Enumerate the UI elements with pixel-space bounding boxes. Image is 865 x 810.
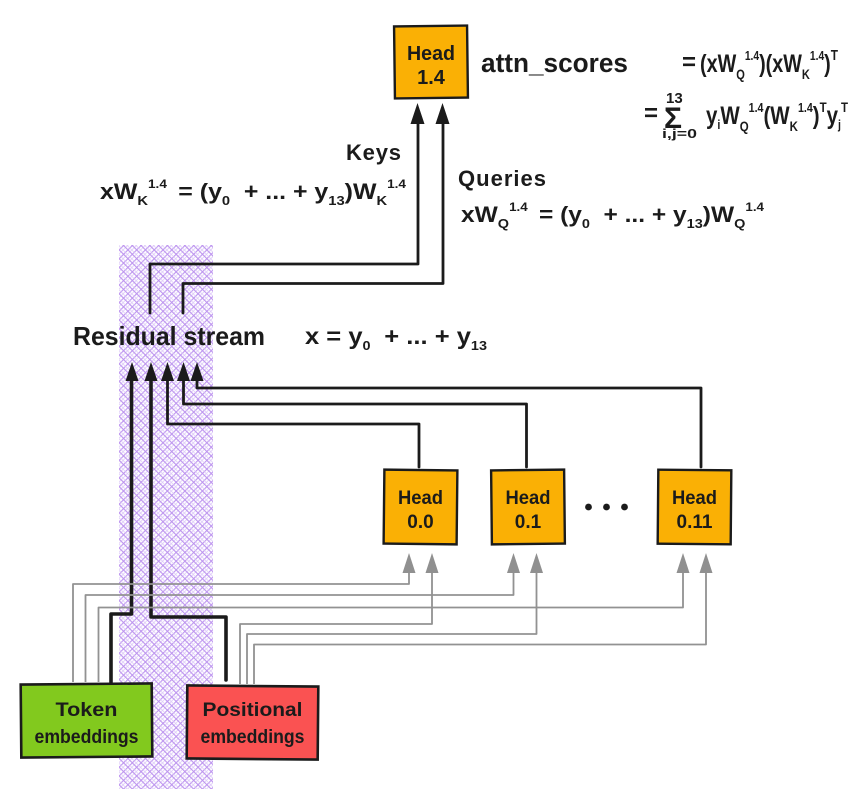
box Positional embeddings <box>187 685 319 759</box>
box Head 0.1 <box>491 470 565 545</box>
svg-text:Token: Token <box>56 700 118 721</box>
arrow into residual stream 2 (from positional embeddings) <box>145 362 227 680</box>
svg-text:embeddings: embeddings <box>201 727 305 748</box>
arrow into residual stream 4 (from Head 0.1) <box>177 362 527 467</box>
ellipsis dots between heads <box>585 504 628 511</box>
label attn_scores equation line 2 (sum) <box>644 90 848 141</box>
box Head 0.0 <box>384 470 458 545</box>
svg-text:0.1: 0.1 <box>515 512 542 533</box>
svg-text:0.0: 0.0 <box>407 512 433 533</box>
svg-text:1.4: 1.4 <box>417 67 446 89</box>
svg-text:=: = <box>644 100 658 127</box>
svg-text:Head: Head <box>398 488 443 509</box>
svg-text:Head: Head <box>506 488 551 509</box>
gray wire token to Head 0.0 <box>73 553 416 682</box>
arrow into residual stream 3 (from Head 0.0) <box>161 362 419 467</box>
svg-text:13: 13 <box>666 90 683 107</box>
wire keys arrow to Head 1.4 <box>150 103 425 313</box>
arrow into residual stream 5 (from Head 0.11) <box>191 362 702 467</box>
svg-text:i,j=0: i,j=0 <box>662 126 697 141</box>
box Head 1.4 <box>394 26 468 99</box>
gray wire token to Head 0.1 <box>86 553 521 682</box>
label Residual stream <box>73 321 487 353</box>
svg-text:Head: Head <box>407 43 455 65</box>
gray wire token to Head 0.11 <box>99 553 690 682</box>
label Keys <box>346 140 401 165</box>
gray wire positional to Head 0.0 <box>240 553 439 684</box>
gray wire positional to Head 0.1 <box>247 553 543 684</box>
svg-text:=: = <box>682 49 696 76</box>
label queries formula <box>461 200 764 231</box>
label Queries <box>458 166 546 191</box>
svg-text:x = y0 + ... + y13: x = y0 + ... + y13 <box>305 323 487 353</box>
svg-text:Positional: Positional <box>203 700 303 721</box>
label keys formula <box>100 177 406 208</box>
svg-text:attn_scores: attn_scores <box>481 48 628 78</box>
svg-text:Keys: Keys <box>346 140 401 165</box>
label attn_scores equation line 1 <box>481 47 838 82</box>
svg-text:0.11: 0.11 <box>677 512 713 533</box>
wire queries arrow to Head 1.4 <box>183 103 450 313</box>
svg-text:Queries: Queries <box>458 166 546 191</box>
residual stream band <box>119 245 213 789</box>
svg-text:Residual stream: Residual stream <box>73 321 265 351</box>
gray wire positional to Head 0.11 <box>254 553 713 684</box>
arrow into residual stream 1 (from token embeddings) <box>111 362 139 682</box>
svg-text:yiWQ1.4(WK1.4)TyjT: yiWQ1.4(WK1.4)TyjT <box>706 99 848 134</box>
svg-text:Head: Head <box>672 488 717 509</box>
box Token embeddings <box>21 683 153 757</box>
svg-text:embeddings: embeddings <box>35 727 139 748</box>
box Head 0.11 <box>658 470 732 545</box>
